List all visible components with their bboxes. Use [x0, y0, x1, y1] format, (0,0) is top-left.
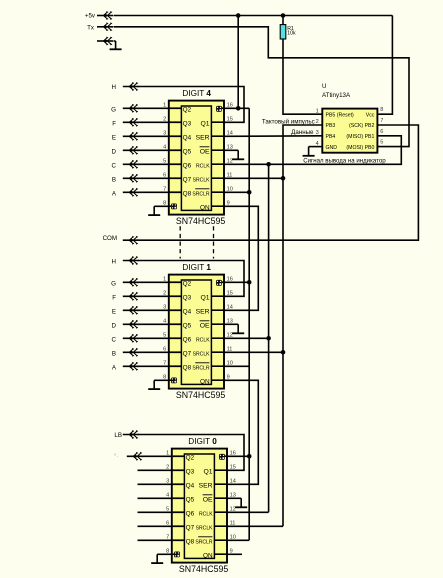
IC DIGIT 1 inner body	[181, 280, 211, 384]
svg-text:H: H	[112, 84, 116, 91]
DIGIT 0 pin 15 stub	[214, 469, 227, 471]
wire A to DIGIT1	[138, 365, 182, 367]
svg-text:Q3: Q3	[183, 121, 192, 128]
svg-text:Q3: Q3	[186, 469, 195, 476]
ground symbol DIGIT0 pin8	[156, 554, 158, 563]
wire A to DIGIT4	[138, 191, 182, 193]
IC DIGIT 0 inner body	[184, 454, 214, 558]
svg-text:SRCLR: SRCLR	[195, 539, 213, 545]
DIGIT 0 pin 9 stub	[214, 553, 227, 555]
connector D DIGIT4	[129, 147, 133, 154]
wire DIGIT4 pin11 branch	[224, 177, 283, 179]
junction +5v/DIGIT1 pin16	[247, 280, 252, 285]
svg-text:Q4: Q4	[183, 309, 192, 316]
DIGIT 0 pin 3 stub	[171, 483, 184, 485]
svg-text:G: G	[111, 280, 116, 287]
svg-text:OE: OE	[200, 322, 210, 329]
DIGIT 0 pin 6 stub	[171, 525, 184, 527]
H connector DIGIT4	[129, 83, 133, 90]
ground symbol DIGIT1 pin8	[153, 380, 155, 389]
DIGIT 4 pin 6 stub	[168, 177, 181, 179]
wire DIGIT4 pin16 to bus	[224, 107, 249, 109]
wire DIGIT1 pin8 to gnd	[154, 379, 169, 381]
connector B DIGIT1	[129, 349, 133, 356]
svg-text:Тактовый импульс: Тактовый импульс	[262, 118, 315, 125]
wire +5v rail	[114, 15, 393, 17]
DIGIT 4 pin 1 stub	[168, 107, 181, 109]
DIGIT 1 pin 14 stub	[211, 309, 224, 311]
wire R1 bottom lead to ATtiny reset pin1	[283, 39, 322, 114]
svg-text:Q8: Q8	[186, 539, 195, 546]
svg-text:SRCLK: SRCLK	[196, 525, 214, 531]
wire R1 top lead	[282, 16, 284, 25]
DIGIT 1 Vcc power flag (pin16)	[216, 280, 222, 286]
connector C DIGIT1	[129, 335, 133, 342]
wire H to DIGIT1 Q1	[138, 261, 245, 297]
DIGIT 1 pin 16 stub	[222, 281, 225, 283]
svg-text:SN74HC595: SN74HC595	[176, 216, 225, 226]
DIGIT 1 pin 5 stub	[168, 337, 181, 339]
DIGIT 0 pin 11 stub	[214, 525, 227, 527]
DIGIT 1 pin 2 stub	[168, 295, 181, 297]
DIGIT 4 pin 4 stub	[168, 149, 181, 151]
svg-text:+5v: +5v	[85, 13, 96, 20]
DIGIT 1 pin 6 stub	[168, 351, 181, 353]
svg-text:(SCK) PB2: (SCK) PB2	[349, 123, 374, 129]
svg-text:10k: 10k	[287, 31, 296, 37]
DIGIT 4 pin 5 stub	[168, 163, 181, 165]
svg-text:Q2: Q2	[183, 107, 192, 114]
svg-text:RCLK: RCLK	[199, 511, 213, 517]
COM connector	[129, 237, 133, 244]
junction clock/DIGIT1 pin11	[281, 350, 286, 355]
connector G DIGIT4	[129, 105, 133, 112]
svg-text:SRCLR: SRCLR	[192, 365, 210, 371]
svg-text:U: U	[322, 83, 326, 90]
svg-text:1: 1	[316, 108, 319, 114]
svg-text:Q4: Q4	[186, 483, 195, 490]
wire DIGIT0 OE to gnd	[227, 497, 241, 499]
svg-text:Q8: Q8	[183, 191, 192, 198]
wire DIGIT4 pin8 to gnd	[154, 205, 169, 207]
ground symbol top-left	[114, 40, 116, 42]
svg-text:H: H	[112, 259, 116, 266]
wire latch drop to lower RCLK pins	[268, 164, 270, 512]
connector A DIGIT1	[129, 363, 133, 370]
DIGIT 4 pin 7 stub	[168, 191, 181, 193]
DIGIT 0 pin 2 stub	[171, 469, 184, 471]
wire DIGIT4 pin10 branch	[224, 191, 249, 193]
svg-text:QN: QN	[200, 378, 210, 385]
DIGIT 4 pin 11 stub	[211, 177, 224, 179]
wire data net Данные	[224, 135, 322, 138]
DIGIT 0 pin 13 stub	[214, 497, 227, 499]
svg-text:SRCLK: SRCLK	[193, 351, 211, 357]
svg-text:F: F	[112, 294, 116, 301]
wire serial chain DIGIT1 QN to DIGIT0 SER	[224, 380, 258, 484]
connector DIGIT0 pin1	[133, 453, 137, 460]
wire DIGIT1 pin12 branch	[224, 337, 269, 339]
DIGIT 1 pin 8 stub	[168, 379, 171, 381]
wire B to DIGIT1	[138, 351, 182, 353]
wire latch net Сигнал вывода на индикатор	[224, 136, 401, 165]
wire F to DIGIT1	[138, 295, 182, 297]
DIGIT 0 pin 7 stub	[171, 539, 184, 541]
svg-text:Q7: Q7	[183, 351, 192, 358]
wire DIGIT4 OE to gnd	[224, 149, 238, 151]
svg-text:OE: OE	[203, 496, 213, 503]
svg-text:Q4: Q4	[183, 135, 192, 142]
wire E to DIGIT4	[138, 135, 182, 137]
svg-text:(MOSI) PB0: (MOSI) PB0	[346, 145, 374, 151]
connector D DIGIT1	[129, 321, 133, 328]
wire PB2 to COM net	[138, 125, 419, 240]
svg-text:Q3: Q3	[183, 295, 192, 302]
wire +5v drop to DIGIT4 pin16	[237, 16, 239, 109]
svg-text:Q7: Q7	[186, 525, 195, 532]
wire DIGIT0 pin11 branch	[227, 525, 283, 527]
DIGIT 4 pin 16 stub	[222, 107, 225, 109]
DIGIT 4 pin 12 stub	[211, 163, 224, 165]
gnd connector top-left	[104, 38, 108, 45]
DIGIT 1 pin 13 stub	[211, 323, 224, 325]
connector E DIGIT1	[129, 307, 133, 314]
dashed link right	[213, 226, 215, 258]
svg-text:Q6: Q6	[183, 163, 192, 170]
svg-text:D: D	[112, 148, 117, 155]
dashed link left	[179, 226, 181, 258]
wire connector to DIGIT0 pin1	[142, 455, 185, 457]
DIGIT 4 pin 13 stub	[211, 149, 224, 151]
connector G DIGIT1	[129, 279, 133, 286]
DIGIT 1 pin 11 stub	[211, 351, 224, 353]
svg-text:LB: LB	[114, 432, 122, 439]
connector A DIGIT4	[129, 189, 133, 196]
DIGIT 4 pin 2 stub	[168, 121, 181, 123]
svg-text:°·: °·	[114, 454, 118, 460]
DIGIT 4 Vcc power flag (pin16)	[216, 106, 222, 112]
wire DIGIT0 pin10 branch	[227, 539, 249, 541]
svg-text:8: 8	[380, 107, 383, 113]
svg-text:RCLK: RCLK	[196, 337, 210, 343]
svg-text:Vcc: Vcc	[366, 112, 375, 118]
ground symbol DIGIT4 pin8	[153, 206, 155, 215]
junction latch/DIGIT1 pin12	[266, 336, 271, 341]
svg-text:SER: SER	[196, 308, 210, 315]
connector E DIGIT4	[129, 133, 133, 140]
svg-text:Q2: Q2	[186, 455, 195, 462]
wire B to DIGIT4	[138, 177, 182, 179]
+5v connector	[104, 12, 108, 19]
junction +5v/DIGIT4 pin10	[247, 190, 252, 195]
wire C to DIGIT1	[138, 337, 182, 339]
svg-text:B: B	[112, 350, 116, 357]
DIGIT 4 pin 8 stub	[168, 205, 171, 207]
wire C to DIGIT4	[138, 163, 182, 165]
wire DIGIT0 pin7 stub	[138, 539, 185, 541]
DIGIT 4 pin 15 stub	[211, 121, 224, 123]
DIGIT 0 pin 1 stub	[171, 455, 184, 457]
svg-text:F: F	[112, 120, 116, 127]
svg-text:DIGIT 1: DIGIT 1	[182, 263, 211, 272]
ground symbol DIGIT1 OE	[237, 324, 239, 333]
DIGIT 1 GND power flag (pin8)	[171, 378, 177, 384]
junction latch/top	[266, 162, 271, 167]
DIGIT 0 pin 10 stub	[214, 539, 227, 541]
DIGIT 4 pin 10 stub	[211, 191, 224, 193]
wire DIGIT0 pin2 stub	[138, 469, 185, 471]
wire DIGIT0 pin3 stub	[138, 483, 185, 485]
DIGIT 1 pin 7 stub	[168, 365, 181, 367]
wire E to DIGIT1	[138, 309, 182, 311]
wire H to DIGIT4 Q1	[138, 87, 245, 123]
wire DIGIT0 pin12 branch	[227, 511, 269, 513]
wire DIGIT1 pin16 branch	[224, 281, 249, 283]
svg-text:C: C	[112, 162, 117, 169]
svg-text:RCLK: RCLK	[196, 163, 210, 169]
junction +5v/R1	[281, 13, 286, 18]
wire U GND pin4	[309, 146, 323, 148]
svg-text:PB5 (Reset): PB5 (Reset)	[326, 112, 355, 118]
DIGIT 0 pin 16 stub	[225, 455, 228, 457]
connector C DIGIT4	[129, 161, 133, 168]
wire G to DIGIT1	[138, 281, 182, 283]
DIGIT 1 pin 15 stub	[211, 295, 224, 297]
svg-text:C: C	[112, 336, 117, 343]
svg-text:SRCLR: SRCLR	[192, 191, 210, 197]
DIGIT 0 pin 12 stub	[214, 511, 227, 513]
wire serial chain DIGIT4 QN to DIGIT1 SER	[224, 206, 258, 310]
DIGIT 4 GND power flag (pin8)	[171, 204, 177, 210]
DIGIT 1 pin 1 stub	[168, 281, 181, 283]
DIGIT 0 pin 5 stub	[171, 511, 184, 513]
wire DIGIT0 pin8 to gnd	[157, 553, 172, 555]
connector F DIGIT1	[129, 293, 133, 300]
IC DIGIT 1 SN74HC595 outer body	[169, 275, 224, 389]
svg-text:ATtiny13A: ATtiny13A	[322, 92, 351, 99]
svg-text:SRCLK: SRCLK	[193, 177, 211, 183]
svg-text:E: E	[112, 308, 116, 315]
ground symbol DIGIT4 OE	[237, 150, 239, 159]
junction clock/DIGIT4 pin11	[281, 176, 286, 181]
DIGIT 0 pin 4 stub	[171, 497, 184, 499]
svg-text:PB4: PB4	[326, 134, 336, 140]
DIGIT 1 pin 3 stub	[168, 309, 181, 311]
svg-text:E: E	[112, 134, 116, 141]
wire D to DIGIT1	[138, 323, 182, 325]
DIGIT 0 GND power flag (pin8)	[174, 552, 180, 558]
wire DIGIT1 pin10 branch	[224, 365, 249, 367]
svg-text:SN74HC595: SN74HC595	[179, 564, 228, 574]
ground symbol DIGIT0 OE	[240, 498, 242, 507]
svg-text:Q5: Q5	[183, 323, 192, 330]
svg-text:6: 6	[380, 129, 383, 135]
DIGIT 1 pin 10 stub	[211, 365, 224, 367]
svg-text:QN: QN	[203, 552, 213, 559]
wire LB to DIGIT0 Q1	[138, 435, 245, 471]
DIGIT 0 pin 8 stub	[171, 553, 174, 555]
DIGIT 0 Vcc power flag (pin16)	[219, 454, 225, 460]
resistor R1	[280, 25, 286, 39]
svg-text:B: B	[112, 176, 116, 183]
wire clock net Тактовый импульс	[283, 125, 322, 526]
svg-text:DIGIT 4: DIGIT 4	[182, 89, 211, 98]
Tx connector	[104, 24, 108, 31]
svg-text:Q6: Q6	[183, 337, 192, 344]
wire F to DIGIT4	[138, 121, 182, 123]
junction bus top	[236, 106, 241, 111]
wire +5v to ATtiny Vcc	[377, 16, 392, 115]
wire DIGIT0 pin16 branch	[227, 455, 249, 457]
DIGIT 4 pin 3 stub	[168, 135, 181, 137]
svg-text:PB3: PB3	[326, 123, 336, 129]
DIGIT 4 pin 9 stub	[211, 205, 224, 207]
junction +5v/rail drop	[236, 13, 241, 18]
svg-text:SER: SER	[199, 482, 213, 489]
wire DIGIT0 pin6 stub	[138, 525, 185, 527]
DIGIT 1 pin 4 stub	[168, 323, 181, 325]
svg-text:Сигнал вывода на индикатор: Сигнал вывода на индикатор	[303, 158, 386, 165]
svg-text:Q1: Q1	[204, 468, 213, 475]
LB connector	[129, 431, 133, 438]
wire DIGIT0 QN stub	[227, 553, 242, 555]
svg-text:GND: GND	[326, 145, 338, 151]
IC DIGIT 4 SN74HC595 outer body	[169, 101, 224, 215]
connector B DIGIT4	[129, 175, 133, 182]
svg-text:Q1: Q1	[201, 294, 210, 301]
wire DIGIT0 pin4 stub	[138, 497, 185, 499]
IC DIGIT 0 SN74HC595 outer body	[172, 449, 227, 563]
svg-text:COM: COM	[103, 235, 117, 242]
svg-text:SN74HC595: SN74HC595	[176, 390, 225, 400]
svg-text:Q1: Q1	[201, 120, 210, 127]
wire DIGIT1 OE to gnd	[224, 323, 238, 325]
DIGIT 4 pin 14 stub	[211, 135, 224, 137]
svg-text:(MISO) PB1: (MISO) PB1	[346, 134, 374, 140]
IC DIGIT 4 inner body	[181, 106, 211, 210]
connector F DIGIT4	[129, 119, 133, 126]
svg-text:Q5: Q5	[183, 149, 192, 156]
svg-text:Q6: Q6	[186, 511, 195, 518]
wire DIGIT0 pin5 stub	[138, 511, 185, 513]
svg-text:Q8: Q8	[183, 365, 192, 372]
wire G to DIGIT4	[138, 107, 182, 109]
DIGIT 1 pin 12 stub	[211, 337, 224, 339]
svg-text:5: 5	[380, 140, 383, 146]
svg-text:Tx: Tx	[87, 25, 95, 32]
svg-text:D: D	[112, 322, 117, 329]
svg-text:OE: OE	[200, 148, 210, 155]
H connector DIGIT1	[129, 257, 133, 264]
svg-text:G: G	[111, 106, 116, 113]
svg-text:Q7: Q7	[183, 177, 192, 184]
op IC U ATtiny13A body	[322, 109, 377, 153]
svg-text:Q2: Q2	[183, 281, 192, 288]
svg-text:Q5: Q5	[186, 497, 195, 504]
svg-text:Данные: Данные	[291, 129, 314, 136]
svg-text:SER: SER	[196, 134, 210, 141]
wire DIGIT1 pin11 branch	[224, 351, 283, 353]
junction +5v/DIGIT0 pin16	[247, 454, 252, 459]
DIGIT 1 pin 9 stub	[211, 379, 224, 381]
DIGIT 0 pin 14 stub	[214, 483, 227, 485]
svg-text:7: 7	[380, 118, 383, 124]
svg-text:DIGIT 0: DIGIT 0	[188, 437, 217, 446]
wire D to DIGIT4	[138, 149, 182, 151]
ground symbol U	[308, 147, 310, 156]
wire Tx net	[114, 27, 410, 147]
svg-text:QN: QN	[200, 204, 210, 211]
wire +5v bus vertical	[248, 108, 250, 540]
